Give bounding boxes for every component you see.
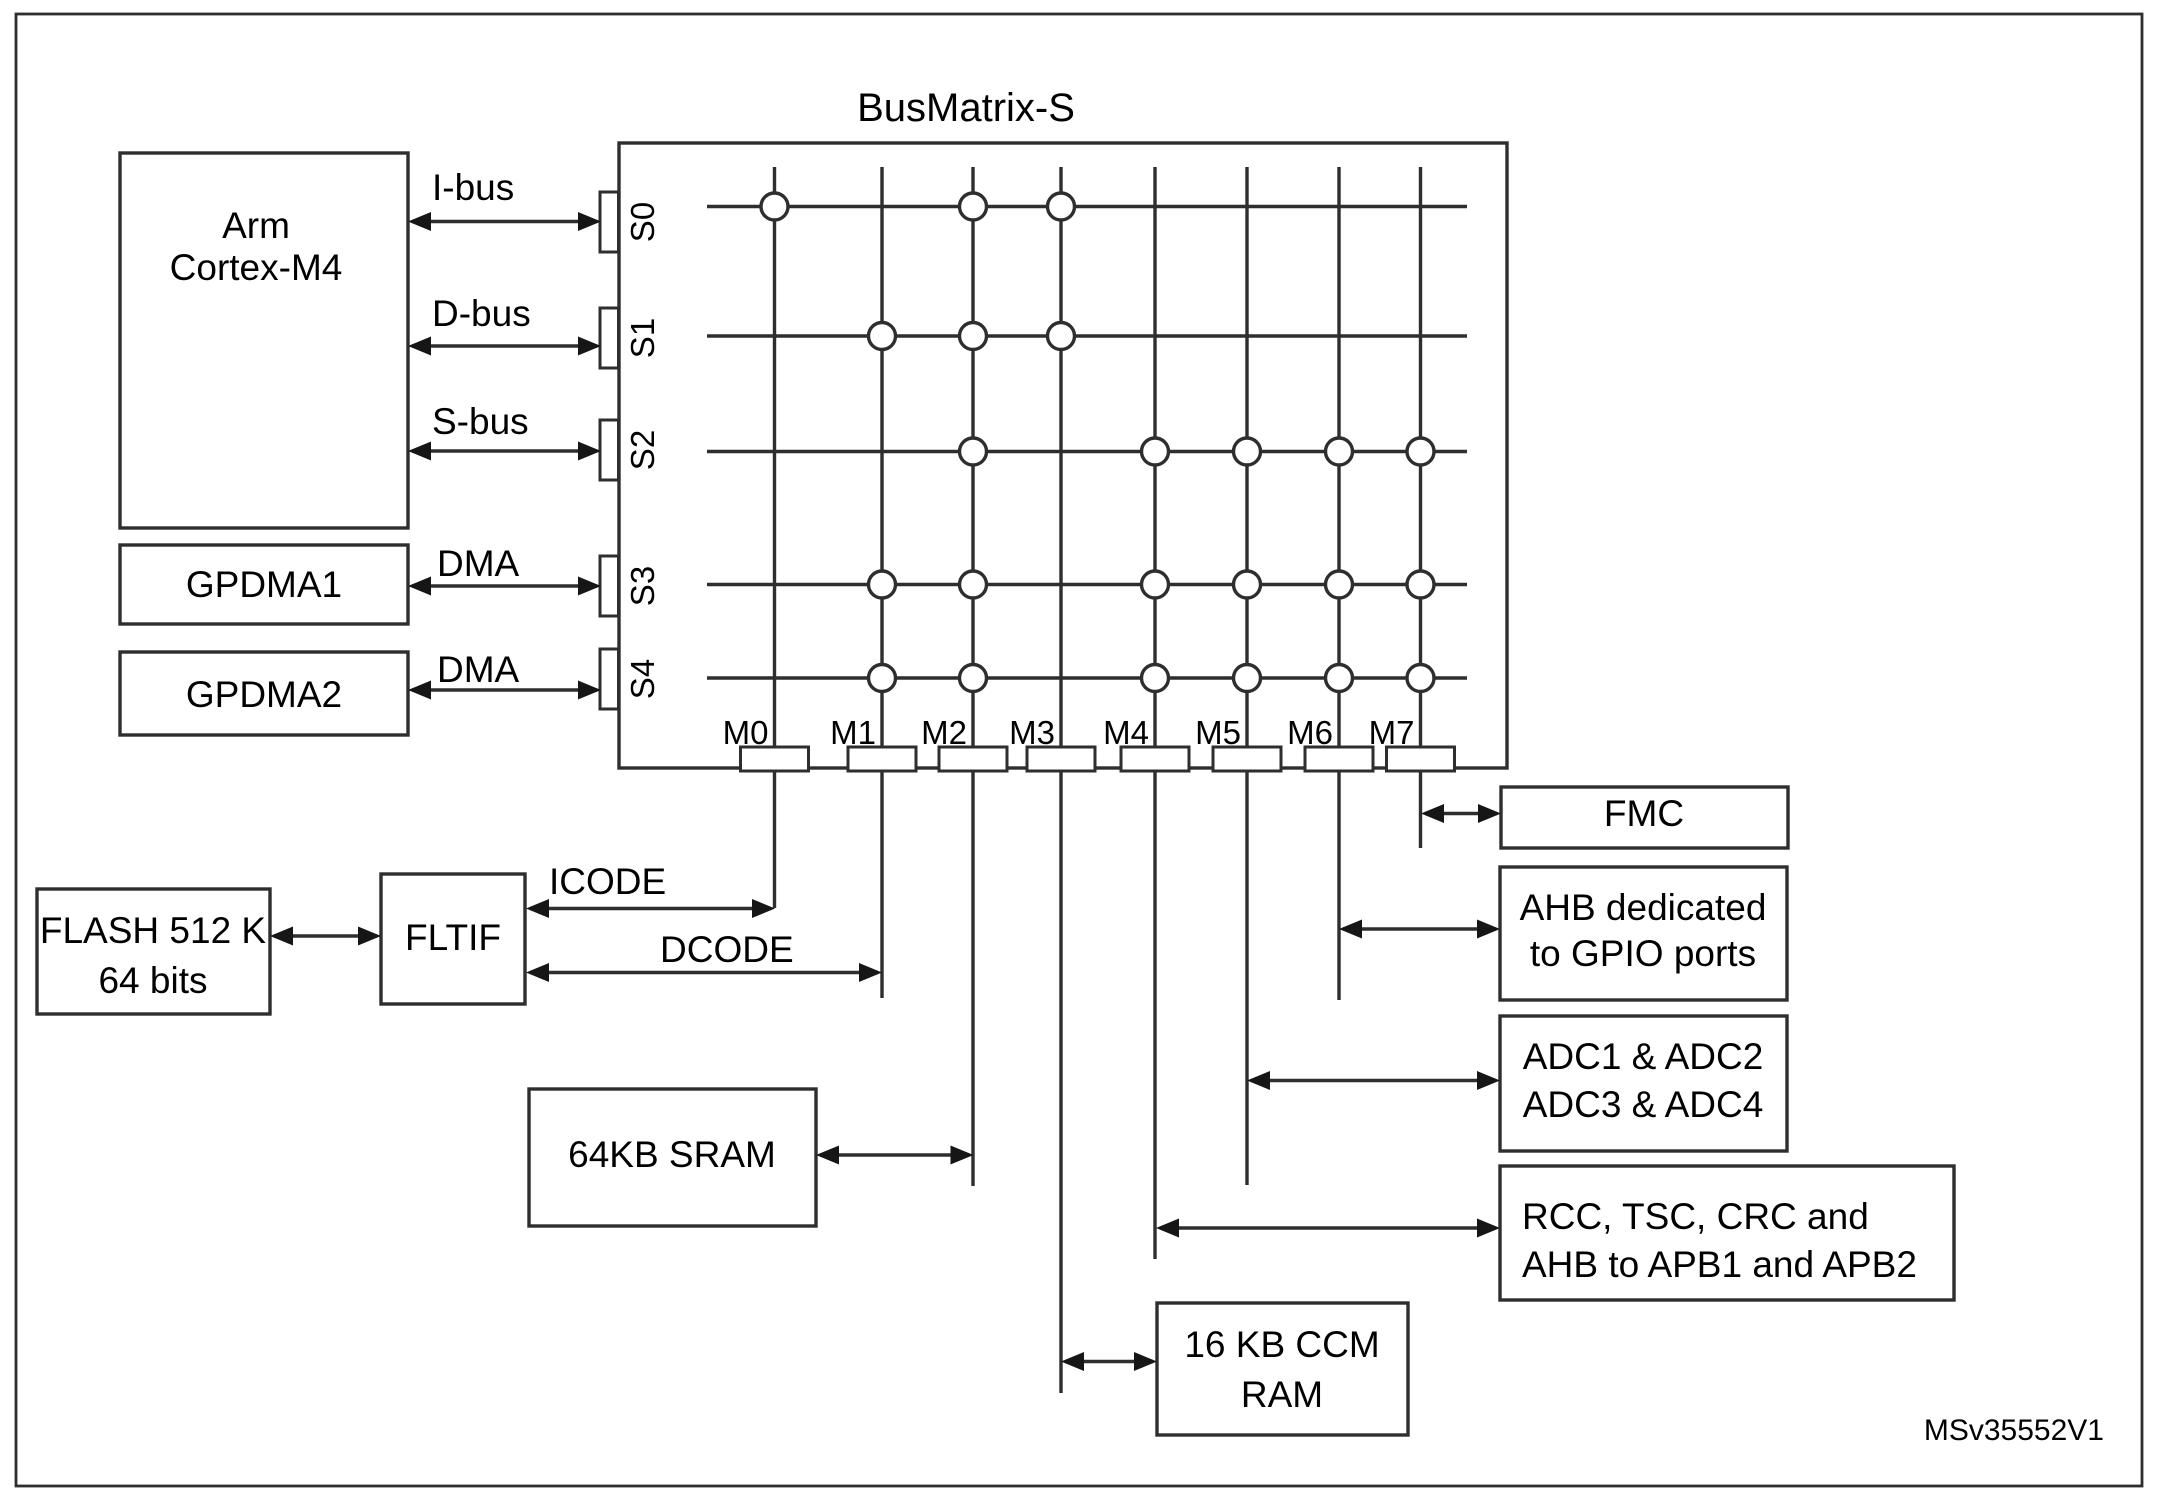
svg-text:AHB to APB1 and APB2: AHB to APB1 and APB2 [1522, 1244, 1917, 1285]
crosspoint junction S4/M5 [1234, 665, 1261, 692]
crosspoint junction S2/M7 [1407, 438, 1434, 465]
wire: I-bus arrow [408, 212, 601, 231]
svg-text:S2: S2 [624, 430, 661, 470]
svg-text:DMA: DMA [437, 543, 520, 584]
wire: DMA to S3 arrow [408, 577, 601, 596]
block GPDMA1 [120, 545, 408, 624]
svg-text:GPDMA2: GPDMA2 [186, 674, 342, 715]
svg-text:to GPIO ports: to GPIO ports [1530, 933, 1756, 974]
svg-text:S3: S3 [624, 566, 661, 606]
label Arm Cortex-M4 [170, 205, 343, 288]
label 16 KB CCM RAM [1184, 1324, 1379, 1415]
wire: S-bus arrow [408, 442, 601, 461]
wire: M5 to ADC arrow [1247, 1071, 1500, 1090]
svg-text:RAM: RAM [1241, 1374, 1323, 1415]
port S0 box [600, 192, 619, 252]
crosspoint junction S4/M1 [869, 665, 896, 692]
svg-text:DCODE: DCODE [660, 929, 794, 970]
svg-text:M6: M6 [1287, 714, 1333, 751]
wire: FLASH-FLTIF arrow [270, 927, 381, 946]
block FMC [1501, 787, 1788, 848]
crosspoint junction S4/M7 [1407, 665, 1434, 692]
svg-text:FLASH 512 K: FLASH 512 K [40, 910, 267, 951]
svg-text:Cortex-M4: Cortex-M4 [170, 247, 343, 288]
svg-text:ADC1 & ADC2: ADC1 & ADC2 [1523, 1036, 1764, 1077]
svg-text:FLTIF: FLTIF [405, 917, 501, 958]
port M6 box [1305, 747, 1373, 771]
crosspoint junction S4/M2 [960, 665, 987, 692]
svg-text:S4: S4 [624, 659, 661, 699]
port S2 box [600, 420, 619, 480]
port M4 box [1121, 747, 1189, 771]
svg-text:S0: S0 [624, 202, 661, 242]
svg-text:M1: M1 [830, 714, 876, 751]
crosspoint junction S4/M6 [1326, 665, 1353, 692]
wire M4 vertical [1153, 167, 1156, 1259]
wire M6 vertical [1337, 167, 1340, 1000]
svg-text:BusMatrix-S: BusMatrix-S [857, 86, 1075, 130]
svg-text:FMC: FMC [1604, 793, 1684, 834]
svg-text:M3: M3 [1009, 714, 1055, 751]
crosspoint junction S3/M6 [1326, 571, 1353, 598]
wire: D-bus arrow [408, 337, 601, 356]
svg-text:S1: S1 [624, 318, 661, 358]
wire M3 vertical [1059, 167, 1062, 1393]
wire S2 horizontal [707, 450, 1467, 453]
crosspoint junction S3/M4 [1142, 571, 1169, 598]
label ADC1 & ADC2 / ADC3 & ADC4 [1523, 1036, 1764, 1125]
svg-text:S-bus: S-bus [432, 401, 529, 442]
port M3 box [1027, 747, 1095, 771]
svg-text:M2: M2 [921, 714, 967, 751]
crosspoint junction S3/M5 [1234, 571, 1261, 598]
port S3 box [600, 556, 619, 616]
svg-text:64KB SRAM: 64KB SRAM [568, 1134, 776, 1175]
block ADC1 &amp; ADC2 / ADC3 &amp; ADC4 [1500, 1016, 1787, 1151]
label RCC, TSC, CRC and AHB to APB1 and APB2 [1522, 1196, 1917, 1285]
port S1 box [600, 308, 619, 368]
block 64KB SRAM [529, 1089, 816, 1226]
wire: DMA to S4 arrow [408, 681, 601, 700]
port M5 box [1213, 747, 1281, 771]
svg-text:Arm: Arm [222, 205, 290, 246]
block GPDMA2 [120, 652, 408, 735]
crosspoint junction S2/M2 [960, 438, 987, 465]
block FLASH 512 K 64 bits [37, 889, 270, 1014]
crosspoint junction S3/M7 [1407, 571, 1434, 598]
crosspoint junction S3/M2 [960, 571, 987, 598]
BusMatrix-S block [619, 143, 1507, 768]
block FLTIF [381, 874, 525, 1004]
svg-text:16 KB CCM: 16 KB CCM [1184, 1324, 1379, 1365]
svg-text:M5: M5 [1195, 714, 1241, 751]
port S4 box [600, 649, 619, 709]
crosspoint junction S0/M0 [761, 193, 788, 220]
crosspoint junction S4/M4 [1142, 665, 1169, 692]
port M7 box [1387, 747, 1455, 771]
svg-text:64 bits: 64 bits [98, 960, 207, 1001]
crosspoint junction S1/M2 [960, 323, 987, 350]
crosspoint junction S2/M4 [1142, 438, 1169, 465]
svg-text:ADC3 & ADC4: ADC3 & ADC4 [1523, 1084, 1764, 1125]
crosspoint junction S3/M1 [869, 571, 896, 598]
port M0 box [741, 747, 809, 771]
wire: M4 to RCC arrow [1156, 1219, 1500, 1238]
wire: ICODE arrow [526, 899, 775, 918]
wire: M6 to AHB/GPIO arrow [1339, 920, 1500, 939]
block 16 KB CCM RAM [1157, 1303, 1408, 1435]
wire M0 vertical [773, 167, 776, 908]
svg-text:D-bus: D-bus [432, 293, 531, 334]
wire S4 horizontal [707, 676, 1467, 679]
label AHB dedicated to GPIO ports [1520, 887, 1767, 974]
wire: M3 to CCM RAM arrow [1061, 1352, 1157, 1371]
crosspoint junction S1/M1 [869, 323, 896, 350]
wire M1 vertical [880, 167, 883, 998]
wire M5 vertical [1245, 167, 1248, 1185]
svg-text:M0: M0 [723, 714, 769, 751]
wire S1 horizontal [707, 334, 1467, 337]
block Arm Cortex-M4 [120, 153, 408, 528]
svg-text:AHB dedicated: AHB dedicated [1520, 887, 1767, 928]
crosspoint junction S0/M3 [1048, 193, 1075, 220]
wire: DCODE arrow [526, 963, 882, 982]
svg-text:M7: M7 [1369, 714, 1415, 751]
svg-text:DMA: DMA [437, 649, 520, 690]
wire S3 horizontal [707, 583, 1467, 586]
crosspoint junction S0/M2 [960, 193, 987, 220]
svg-text:GPDMA1: GPDMA1 [186, 564, 342, 605]
svg-text:I-bus: I-bus [432, 167, 514, 208]
crosspoint junction S2/M5 [1234, 438, 1261, 465]
svg-text:MSv35552V1: MSv35552V1 [1924, 1414, 2104, 1447]
wire: M7 to FMC arrow [1421, 804, 1501, 823]
svg-text:RCC, TSC, CRC and: RCC, TSC, CRC and [1522, 1196, 1869, 1237]
wire M7 vertical [1419, 167, 1422, 848]
block AHB dedicated to GPIO ports [1500, 867, 1787, 1000]
label FLASH 512 K / 64 bits [40, 910, 267, 1001]
svg-text:ICODE: ICODE [549, 861, 666, 902]
crosspoint junction S2/M6 [1326, 438, 1353, 465]
wire M2 vertical [971, 167, 974, 1186]
port M2 box [939, 747, 1007, 771]
port M1 box [848, 747, 916, 771]
wire S0 horizontal [707, 205, 1467, 208]
block RCC TSC CRC and AHB to APB1 and APB2 [1500, 1166, 1954, 1300]
wire: SRAM to M2 arrow [816, 1146, 974, 1165]
crosspoint junction S1/M3 [1048, 323, 1075, 350]
svg-text:M4: M4 [1103, 714, 1149, 751]
